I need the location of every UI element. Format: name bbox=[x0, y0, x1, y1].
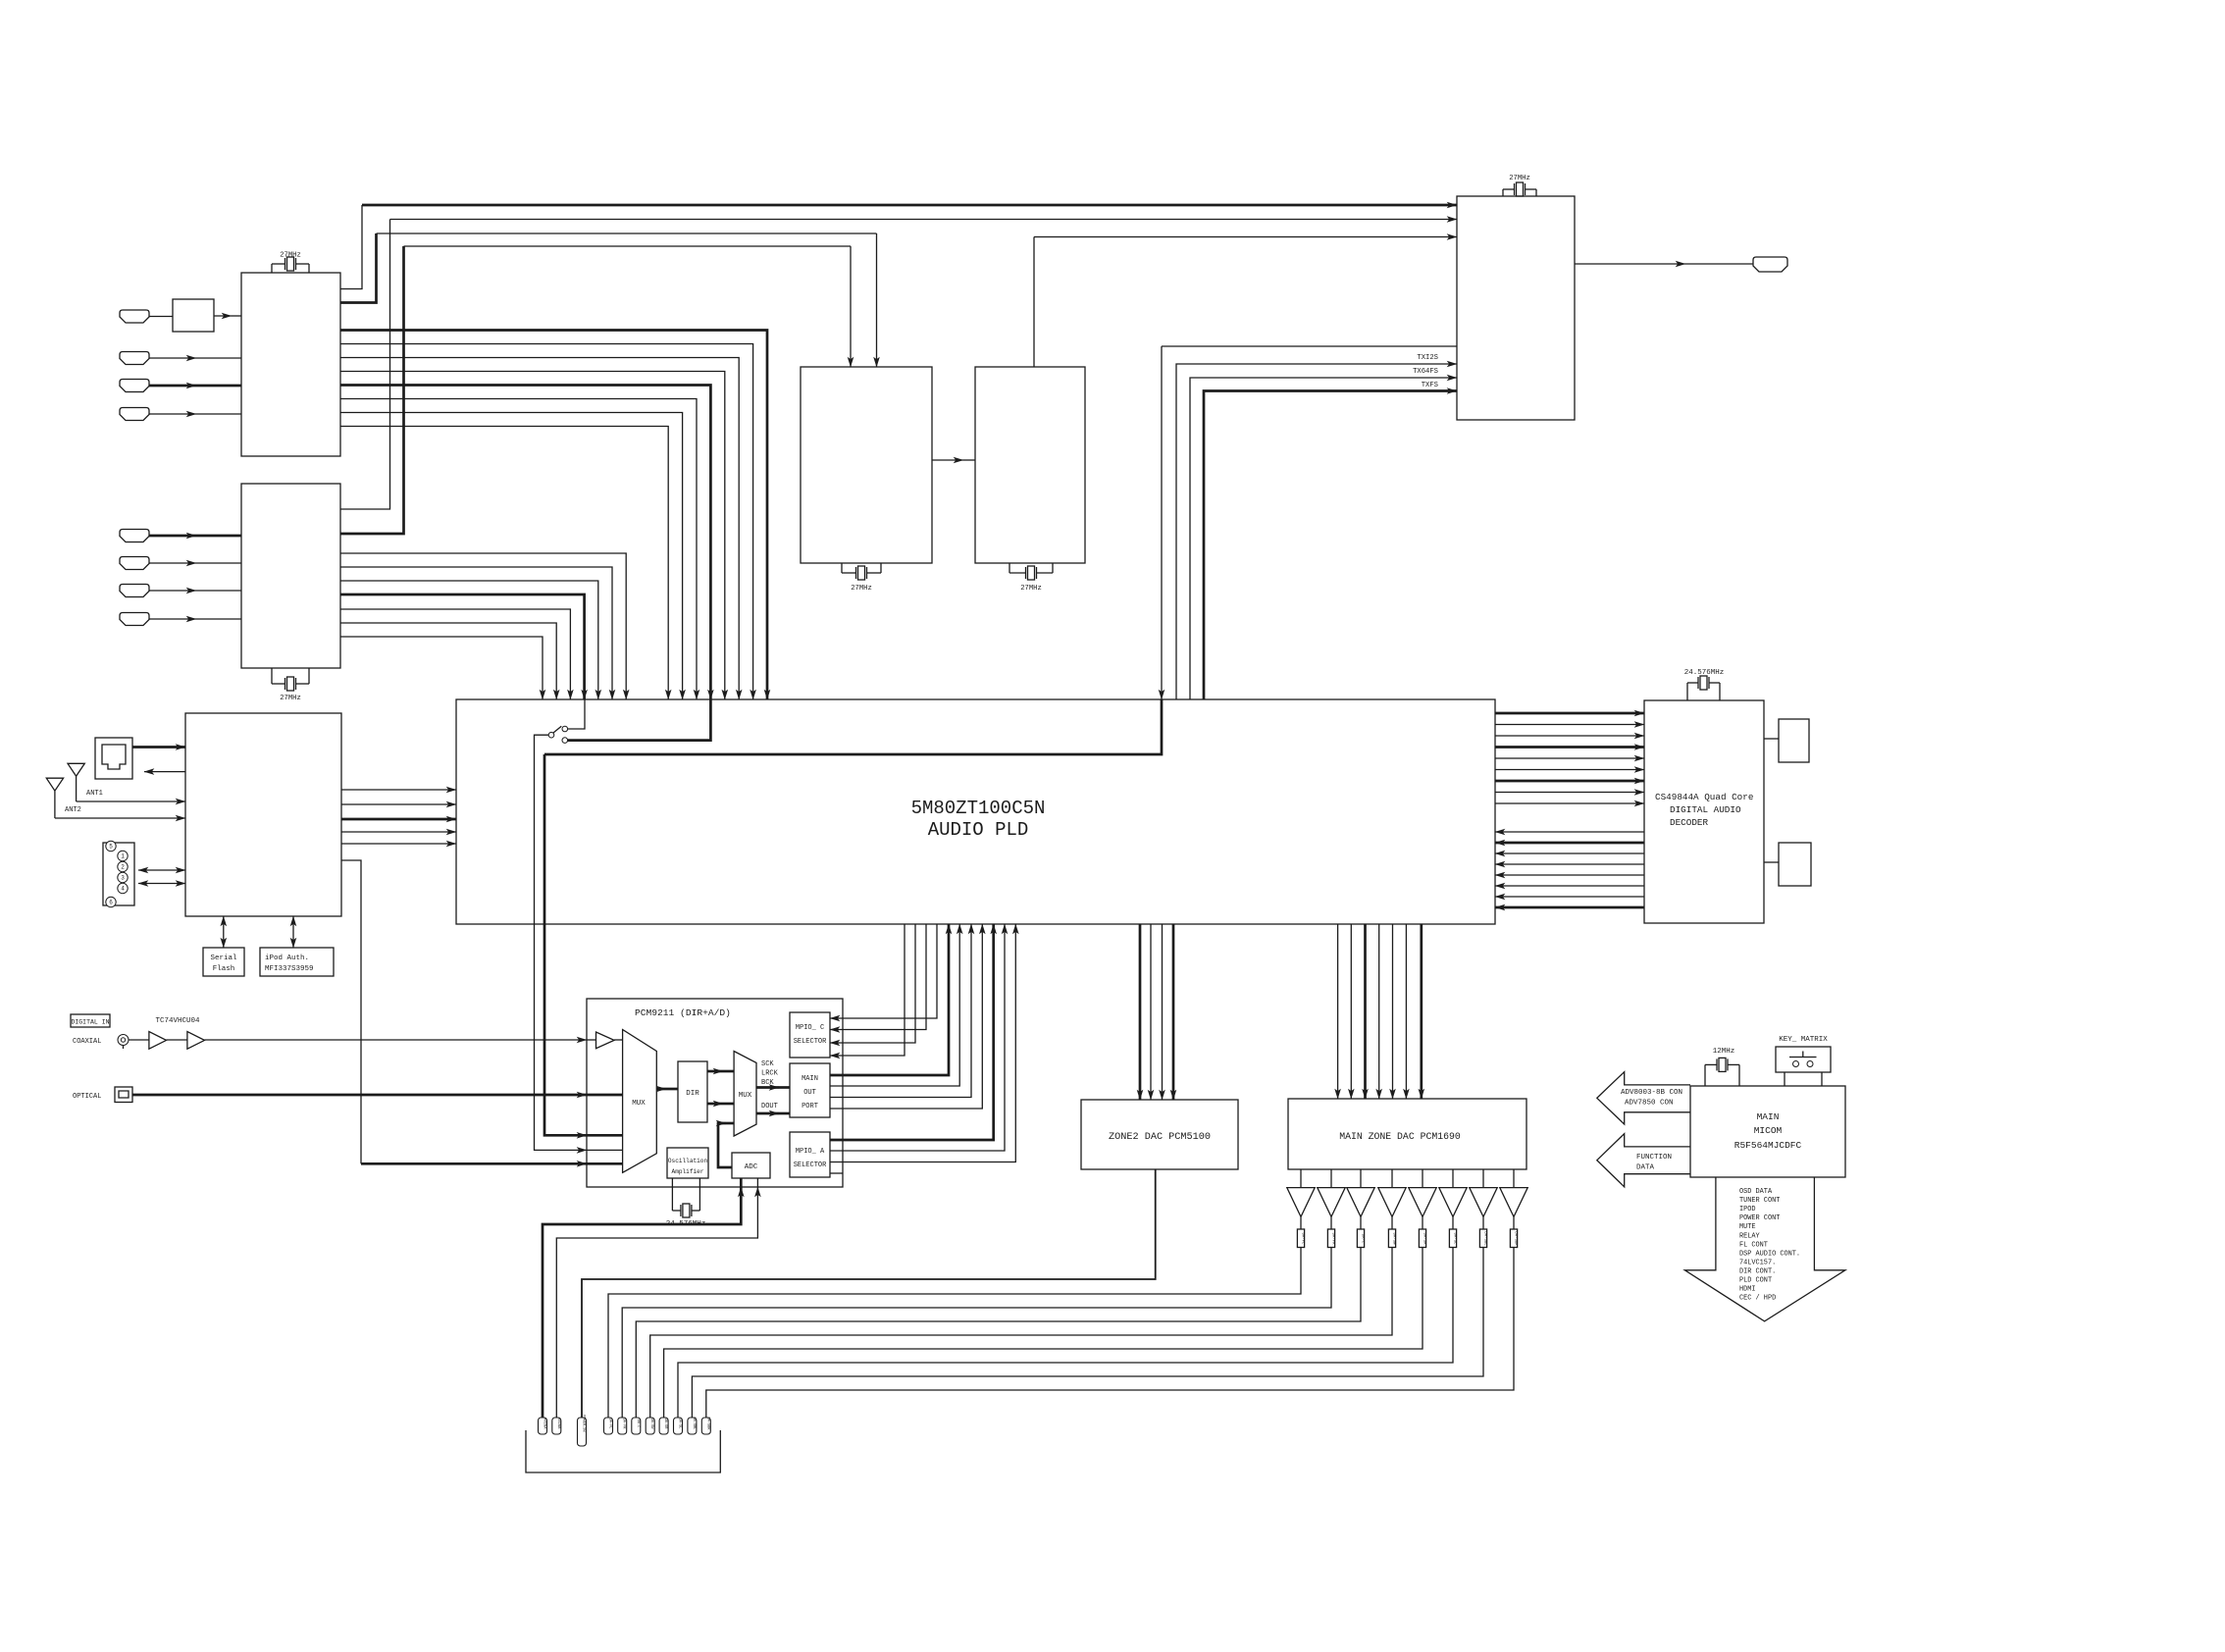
svg-text:OSD DATA: OSD DATA bbox=[1739, 1188, 1773, 1196]
svg-text:DA-SBR: DA-SBR bbox=[1514, 1231, 1518, 1246]
wire optical to PCM9211 (thick) bbox=[132, 1094, 587, 1097]
switch S1 inside PLD bbox=[548, 699, 585, 743]
DIN connector J11 bbox=[103, 841, 134, 906]
HDMI input connector J8 bbox=[120, 613, 149, 626]
AUDIO PLD block U6 bbox=[456, 699, 1495, 924]
wire J5 to U2 (thick) bbox=[149, 535, 196, 538]
wire HDMI TX to U4 top bbox=[1034, 236, 1457, 238]
HDMI input connector J1 bbox=[120, 310, 149, 323]
svg-text:DA-SW: DA-SW bbox=[1392, 1232, 1396, 1245]
antenna ANT2 bbox=[46, 778, 63, 818]
svg-text:DA-SBL: DA-SBL bbox=[1483, 1231, 1487, 1246]
svg-text:4: 4 bbox=[121, 886, 125, 893]
HDMI input connector J5 bbox=[120, 530, 149, 542]
HDMI input connector J3 bbox=[120, 380, 149, 392]
input buffer U14 inside PCM9211 bbox=[596, 1032, 615, 1049]
svg-text:DA-SL: DA-SL bbox=[678, 1419, 682, 1429]
crystal X6 24.576MHz above U10 bbox=[1687, 676, 1720, 700]
svg-text:ADV8003-8B CON: ADV8003-8B CON bbox=[1621, 1089, 1682, 1097]
control signal list bbox=[1739, 1188, 1800, 1303]
wire top net1 U1 to HDMI TX (thick) bbox=[362, 204, 1457, 207]
MPIO_A SELECTOR box bbox=[790, 1132, 830, 1177]
svg-text:ZONE2 DAC PCM5100: ZONE2 DAC PCM5100 bbox=[1109, 1132, 1211, 1143]
svg-text:R5F564MJCDFC: R5F564MJCDFC bbox=[1734, 1140, 1802, 1151]
svg-text:KEY_ MATRIX: KEY_ MATRIX bbox=[1779, 1036, 1828, 1044]
wire ANT2 to U7 bbox=[55, 817, 185, 819]
crystal X8 12MHz bbox=[1705, 1058, 1739, 1086]
wire J1 to small box bbox=[149, 316, 173, 318]
svg-text:1: 1 bbox=[121, 853, 125, 860]
svg-text:DA-SBR: DA-SBR bbox=[705, 1418, 709, 1431]
wire U1 pin to top net (stub) bbox=[340, 205, 362, 289]
wire U10 to U12 bbox=[1764, 861, 1779, 863]
wire U5 pin to PLD (via x1184) bbox=[1162, 345, 1457, 347]
svg-text:DIGITAL IN: DIGITAL IN bbox=[71, 1019, 109, 1026]
svg-text:2: 2 bbox=[121, 864, 125, 871]
svg-text:AXINA: AXINA bbox=[543, 1419, 546, 1430]
MUX2 bbox=[734, 1052, 756, 1137]
svg-text:DIR: DIR bbox=[686, 1090, 699, 1098]
wire net3 drop into U3 bbox=[876, 233, 878, 367]
svg-text:27MHz: 27MHz bbox=[1020, 585, 1042, 593]
wire U5 to J9 bbox=[1575, 263, 1685, 265]
ZONE2 DAC PCM5100 block U16 bbox=[1081, 1100, 1238, 1169]
svg-text:IPOD: IPOD bbox=[1739, 1206, 1756, 1213]
wire PLD internal heavy net to PCM9211 (thick) bbox=[544, 699, 1162, 754]
svg-text:5M80ZT100C5N: 5M80ZT100C5N bbox=[911, 798, 1046, 819]
wire bundle PLD to decoder (9 lines) bbox=[1495, 713, 1644, 803]
wire small box to U1 bbox=[214, 315, 232, 317]
crystal X1 27MHz above U1 bbox=[272, 257, 309, 273]
svg-text:LRCK: LRCK bbox=[761, 1070, 779, 1078]
svg-text:TXFS: TXFS bbox=[1422, 382, 1438, 389]
buffer U15a bbox=[149, 1032, 167, 1050]
wire U3 to U4 bbox=[932, 459, 963, 461]
wire pin1 to ADC input1 (thick) bbox=[543, 1187, 741, 1418]
wire MPIO_A pin4 stub bbox=[830, 1172, 843, 1174]
wire stubs inside PCM9211 to MUX1 bbox=[587, 1134, 623, 1137]
connector pins CN1-1..11 bbox=[539, 1415, 711, 1446]
crystal X4 27MHz below U4 bbox=[1009, 563, 1053, 580]
svg-text:FL CONT: FL CONT bbox=[1739, 1241, 1768, 1249]
wire TXI2S PLD to U5 bbox=[1176, 364, 1457, 699]
svg-text:DA-C: DA-C bbox=[1361, 1234, 1365, 1244]
wire U7 to iPod Auth bidirectional bbox=[292, 916, 294, 932]
wire U7 down to PCM9211 bbox=[341, 860, 361, 1163]
coaxial connector J12 bbox=[118, 1035, 129, 1050]
hollow arrow FUNCTION DATA bbox=[1597, 1134, 1690, 1187]
svg-text:24.576MHz: 24.576MHz bbox=[1684, 669, 1725, 677]
svg-text:BCK: BCK bbox=[761, 1079, 774, 1087]
svg-text:DA-SR: DA-SR bbox=[663, 1419, 667, 1430]
KEY_MATRIX box bbox=[1776, 1036, 1831, 1072]
wire pin2 to ADC input2 bbox=[556, 1187, 757, 1418]
svg-text:27MHz: 27MHz bbox=[280, 252, 301, 260]
block U4 (middle right) bbox=[975, 367, 1085, 563]
wire MUX1 to DIR bbox=[656, 1088, 666, 1091]
wire U2 pin to net4 (thick stub) bbox=[340, 246, 404, 534]
svg-text:DIGITAL AUDIO: DIGITAL AUDIO bbox=[1670, 804, 1741, 815]
svg-text:SELECTOR: SELECTOR bbox=[794, 1038, 827, 1046]
wire switch pole down to PCM9211 bbox=[535, 735, 588, 1150]
wire J3 to U1 (thick) bbox=[149, 385, 196, 387]
side box U11 bbox=[1779, 719, 1809, 762]
wire bundle PLD to MPIO_C (4 lines) bbox=[830, 924, 937, 1056]
svg-text:DA-SW: DA-SW bbox=[649, 1419, 653, 1430]
wire J2 to U1 bbox=[149, 357, 196, 359]
svg-text:ADC: ADC bbox=[745, 1163, 758, 1171]
svg-text:MFI337S3959: MFI337S3959 bbox=[265, 965, 314, 973]
HDMI input connector J2 bbox=[120, 352, 149, 365]
HDMI output connector J9 bbox=[1753, 257, 1787, 272]
harness wires pins4-11 to resistors R1-R8 bbox=[608, 1248, 1514, 1419]
svg-text:AXINB: AXINB bbox=[556, 1419, 560, 1430]
tuner/network block U7 bbox=[185, 713, 341, 916]
svg-text:Amplifier: Amplifier bbox=[672, 1168, 704, 1175]
svg-text:MUX: MUX bbox=[739, 1092, 752, 1100]
crystal X3 27MHz below U3 bbox=[842, 563, 881, 580]
svg-text:DECODER: DECODER bbox=[1670, 817, 1708, 828]
svg-text:MPIO_ A: MPIO_ A bbox=[796, 1148, 825, 1156]
svg-text:Serial: Serial bbox=[210, 955, 237, 962]
MAIN ZONE DAC PCM1690 block U17 bbox=[1288, 1099, 1526, 1169]
HDMI input connector J7 bbox=[120, 585, 149, 597]
wire bundle U1 to PLD top (8 lines) bbox=[340, 331, 767, 700]
antenna ANT1 bbox=[68, 763, 84, 801]
wire DIR to MUX2 (2) bbox=[707, 1070, 723, 1073]
RJ45 connector J10 bbox=[95, 738, 132, 779]
svg-text:POWER CONT: POWER CONT bbox=[1739, 1214, 1780, 1222]
svg-text:DOUT: DOUT bbox=[761, 1103, 778, 1110]
svg-text:OPTICAL: OPTICAL bbox=[73, 1093, 101, 1101]
svg-text:HDMI: HDMI bbox=[1739, 1286, 1756, 1294]
svg-text:RELAY: RELAY bbox=[1739, 1232, 1761, 1240]
op-amp buffers U18a-h below MAIN ZONE DAC bbox=[1287, 1169, 1527, 1216]
svg-text:DSP AUDIO CONT.: DSP AUDIO CONT. bbox=[1739, 1250, 1800, 1258]
resistors R1-R8 bbox=[1297, 1216, 1517, 1247]
wire J10 to U7 (thick) bbox=[132, 746, 185, 749]
svg-text:3: 3 bbox=[121, 875, 125, 882]
Serial Flash box U8 bbox=[203, 948, 244, 976]
svg-text:MAIN: MAIN bbox=[1757, 1111, 1780, 1122]
svg-text:ANT2: ANT2 bbox=[65, 806, 81, 814]
wire net2 U2 to HDMI TX bbox=[390, 219, 1458, 221]
svg-text:TXI2S: TXI2S bbox=[1417, 354, 1438, 362]
svg-text:FUNCTION: FUNCTION bbox=[1636, 1154, 1672, 1162]
CS49844A decoder block U10 bbox=[1644, 700, 1764, 923]
optical connector J13 bbox=[115, 1087, 132, 1103]
wire J6 to U2 bbox=[149, 562, 196, 564]
wire coax to buffers to PCM9211 bbox=[129, 1039, 149, 1041]
svg-text:MAIN ZONE DAC PCM1690: MAIN ZONE DAC PCM1690 bbox=[1339, 1131, 1461, 1142]
wire net3 to block U3 top bbox=[377, 232, 877, 234]
svg-text:TUNER CONT: TUNER CONT bbox=[1739, 1197, 1780, 1205]
svg-text:SELECTOR: SELECTOR bbox=[794, 1162, 827, 1169]
svg-text:TC74VHCU04: TC74VHCU04 bbox=[155, 1017, 200, 1025]
wire bundle decoder to PLD (8 lines) bbox=[1495, 832, 1644, 907]
svg-text:MPIO_ C: MPIO_ C bbox=[796, 1024, 824, 1032]
svg-text:AUDIO PLD: AUDIO PLD bbox=[928, 819, 1029, 841]
block U3 (middle left) bbox=[801, 367, 932, 563]
wire ANT1 to U7 bbox=[77, 800, 185, 802]
svg-text:DA-FR: DA-FR bbox=[622, 1419, 626, 1430]
svg-text:27MHz: 27MHz bbox=[1509, 175, 1530, 182]
wire ADC to MUX2 bbox=[718, 1123, 732, 1167]
hollow arrow to ADV8003/ADV7850 bbox=[1597, 1072, 1690, 1124]
svg-text:POWER_SW: POWER_SW bbox=[582, 1415, 586, 1432]
wire TXFS PLD to U5 (thick) bbox=[1204, 391, 1457, 700]
HDMI RX block U1 (top-left) bbox=[241, 273, 340, 456]
MAIN OUT PORT box bbox=[790, 1063, 830, 1117]
wire J8 to U2 bbox=[149, 618, 196, 620]
wires KEY_MATRIX to MICOM bbox=[1785, 1072, 1822, 1086]
svg-text:DA-FL: DA-FL bbox=[1301, 1232, 1305, 1245]
wire U7 to J10 bbox=[144, 771, 185, 773]
wire DIN to U7 bidirectional 2 bbox=[138, 883, 157, 885]
wire U1 pin to net3 (thick stub) bbox=[340, 233, 377, 303]
svg-text:SCK: SCK bbox=[761, 1060, 774, 1068]
wire bundle U7 to PLD left (5 lines) bbox=[341, 790, 456, 844]
wire pin3 to ZONE2 DAC output bbox=[582, 1169, 1156, 1418]
MAIN MICOM block U19 bbox=[1690, 1086, 1845, 1177]
crystal X2 27MHz below U2 bbox=[272, 668, 309, 691]
svg-text:Flash: Flash bbox=[213, 965, 235, 973]
PCM9211 block U13 bbox=[587, 999, 843, 1187]
svg-text:DA-SL: DA-SL bbox=[1453, 1232, 1457, 1245]
svg-text:TX64FS: TX64FS bbox=[1413, 368, 1438, 376]
wire DIN to U7 bidirectional 1 bbox=[138, 869, 157, 871]
HDMI input connector J6 bbox=[120, 557, 149, 570]
DIR box bbox=[678, 1061, 707, 1122]
bottom connector CN1 bracket bbox=[526, 1430, 720, 1472]
HDMI RX block U2 (lower-left) bbox=[241, 484, 340, 668]
svg-text:6: 6 bbox=[109, 900, 113, 906]
svg-text:DATA: DATA bbox=[1636, 1164, 1655, 1172]
svg-text:DA-C: DA-C bbox=[636, 1420, 640, 1428]
wire MUX2 to MAIN OUT PORT 2 bbox=[756, 1112, 779, 1115]
wire net4 drop into U3 bbox=[850, 246, 852, 367]
svg-text:PCM9211 (DIR+A/D): PCM9211 (DIR+A/D) bbox=[635, 1007, 731, 1018]
svg-text:ANT1: ANT1 bbox=[86, 790, 103, 798]
svg-text:iPod Auth.: iPod Auth. bbox=[265, 955, 309, 962]
Oscillation Amplifier box bbox=[667, 1148, 708, 1178]
wire bundle MAIN OUT PORT to PLD (4 lines) bbox=[830, 924, 982, 1109]
wire bundle U2 to PLD top (7 lines) bbox=[340, 553, 626, 699]
HDMI TX block U5 (top-right) bbox=[1457, 196, 1575, 420]
buffer U15b bbox=[187, 1032, 205, 1050]
MPIO_C SELECTOR box bbox=[790, 1012, 830, 1058]
svg-text:DA-FR: DA-FR bbox=[1331, 1232, 1335, 1245]
svg-text:27MHz: 27MHz bbox=[280, 695, 301, 702]
wire net4 to block U3 top bbox=[404, 245, 852, 247]
iPod Auth box U9 bbox=[260, 948, 334, 976]
wire TX64FS PLD to U5 bbox=[1190, 378, 1457, 699]
wire bundle PLD to MAIN ZONE DAC (7 lines) bbox=[1338, 924, 1422, 1099]
svg-text:MICOM: MICOM bbox=[1754, 1125, 1783, 1136]
HDMI input connector J4 bbox=[120, 408, 149, 421]
wire U2 pin to net2 (stub) bbox=[340, 220, 390, 510]
svg-text:PORT: PORT bbox=[802, 1103, 818, 1110]
svg-text:MUX: MUX bbox=[632, 1100, 646, 1108]
DIGITAL IN label box bbox=[71, 1014, 110, 1027]
svg-text:MUTE: MUTE bbox=[1739, 1223, 1756, 1231]
svg-text:MAIN: MAIN bbox=[802, 1075, 818, 1083]
svg-text:PLD CONT: PLD CONT bbox=[1739, 1277, 1772, 1285]
svg-text:DA-FL: DA-FL bbox=[608, 1419, 612, 1429]
svg-text:DIR CONT.: DIR CONT. bbox=[1739, 1267, 1776, 1275]
wire MUX2 to MAIN OUT PORT 1 bbox=[756, 1086, 779, 1089]
side box U12 bbox=[1779, 843, 1811, 886]
MUX1 bbox=[623, 1030, 657, 1173]
big control arrow below MICOM bbox=[1684, 1177, 1845, 1321]
wire switch throw2 to PLD top (thick) bbox=[568, 699, 711, 741]
svg-text:ADV7850 CON: ADV7850 CON bbox=[1625, 1100, 1674, 1108]
svg-text:Oscillation: Oscillation bbox=[668, 1158, 708, 1164]
wire bundle PLD to ZONE2 DAC (4 lines) bbox=[1140, 924, 1173, 1100]
wire bundle MPIO_A to PLD (3 lines) bbox=[830, 924, 1015, 1162]
crystal X7 24.576MHz below osc amp bbox=[672, 1178, 699, 1217]
svg-text:CEC / HPD: CEC / HPD bbox=[1739, 1295, 1776, 1303]
svg-text:5: 5 bbox=[109, 844, 113, 851]
crystal X5 27MHz above U5 bbox=[1503, 182, 1536, 196]
wire J7 to U2 bbox=[149, 590, 196, 592]
svg-text:CS49844A Quad Core: CS49844A Quad Core bbox=[1655, 792, 1753, 802]
small box (level shifter) bbox=[173, 299, 214, 332]
svg-text:DA-SBL: DA-SBL bbox=[692, 1418, 696, 1430]
svg-text:COAXIAL: COAXIAL bbox=[73, 1038, 101, 1046]
ADC box bbox=[732, 1153, 770, 1178]
svg-text:OUT: OUT bbox=[803, 1089, 816, 1097]
svg-text:27MHz: 27MHz bbox=[851, 585, 872, 593]
svg-text:DA-SR: DA-SR bbox=[1423, 1232, 1426, 1245]
svg-text:12MHz: 12MHz bbox=[1713, 1048, 1735, 1056]
wire J4 to U1 bbox=[149, 413, 196, 415]
wire U10 to U11 bbox=[1764, 738, 1779, 740]
wire U7 to Serial Flash bidirectional bbox=[223, 916, 225, 932]
svg-text:74LVC157.: 74LVC157. bbox=[1739, 1259, 1776, 1266]
